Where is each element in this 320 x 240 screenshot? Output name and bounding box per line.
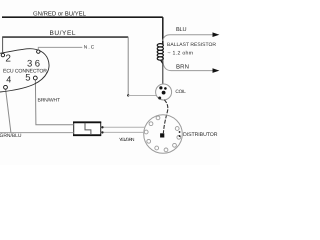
wire: box to distributor upper (101, 126, 145, 128)
junction dot (127, 94, 129, 96)
coil centre terminal dot (162, 91, 166, 95)
svg-text:DISTRIBUTOR: DISTRIBUTOR (183, 132, 218, 138)
wire: GRN/BLU horizontal (0, 132, 74, 134)
distributor centre contact (160, 133, 164, 137)
box thick bottom edge (73, 134, 101, 136)
svg-text:4: 4 (6, 75, 11, 85)
svg-text:BLU: BLU (176, 27, 187, 33)
noise suppressor box (74, 122, 101, 135)
wire: BRN/WHT from ECU pin 5 (35, 80, 73, 125)
distributor side terminal dots (179, 131, 181, 133)
terminal dot upper (101, 126, 103, 128)
ECU connector outline (0, 49, 49, 92)
pin 4 (4, 85, 8, 89)
wire: N.C stub (38, 47, 82, 49)
coil lower-left dot (158, 97, 161, 100)
arrowhead BRN (213, 68, 220, 73)
wire: resistor to coil (162, 58, 164, 84)
svg-text:BRN/WHT: BRN/WHT (38, 97, 61, 103)
wire: ECU pin 4 drop (6, 89, 11, 132)
wire: into coil left (128, 95, 157, 97)
svg-text:GN/RED or BU/YEL: GN/RED or BU/YEL (33, 11, 87, 18)
coil body (156, 84, 172, 100)
svg-text:2: 2 (5, 54, 11, 65)
svg-text:COIL: COIL (175, 89, 186, 95)
coil terminal dot 2 (164, 87, 167, 90)
svg-text:N.C: N.C (84, 45, 95, 51)
terminal dot lower (101, 131, 103, 133)
svg-text:GRN/BLU: GRN/BLU (0, 133, 22, 139)
svg-text:BRN: BRN (176, 63, 189, 70)
coil terminal dot 1 (159, 86, 162, 89)
wire: BU/YEL drop to coil (127, 37, 129, 95)
distributor body (144, 115, 183, 154)
svg-text:5: 5 (25, 73, 30, 84)
wire: BU/YEL to pin 2 (2, 37, 4, 53)
wire: drop to ballast resistor (162, 17, 164, 44)
wire: BRN output arrow (163, 61, 214, 71)
distributor cap terminals (144, 116, 180, 152)
wire: BLU output arrow (163, 35, 214, 41)
box internal link (85, 123, 91, 135)
pin 36 (37, 50, 40, 53)
svg-text:BALLAST RESISTOR: BALLAST RESISTOR (167, 42, 216, 48)
svg-text:~ 1.2 ohm: ~ 1.2 ohm (168, 51, 194, 57)
pin 5 (33, 76, 37, 80)
svg-text:YEL/GRN: YEL/GRN (119, 137, 135, 142)
ballast resistor R (coil loops) (157, 44, 163, 64)
wire: box to distributor lower (101, 131, 144, 133)
arrowhead BLU (213, 32, 220, 37)
svg-text:BU/YEL: BU/YEL (50, 30, 76, 37)
wire: coil HT lead to distributor (163, 100, 167, 134)
box thick top edge (73, 121, 101, 123)
wire: main feed GN/RED or BU/YEL (top horizontal) (2, 16, 163, 18)
pin 2 (1, 53, 4, 56)
wire: BU/YEL horizontal (2, 36, 128, 38)
